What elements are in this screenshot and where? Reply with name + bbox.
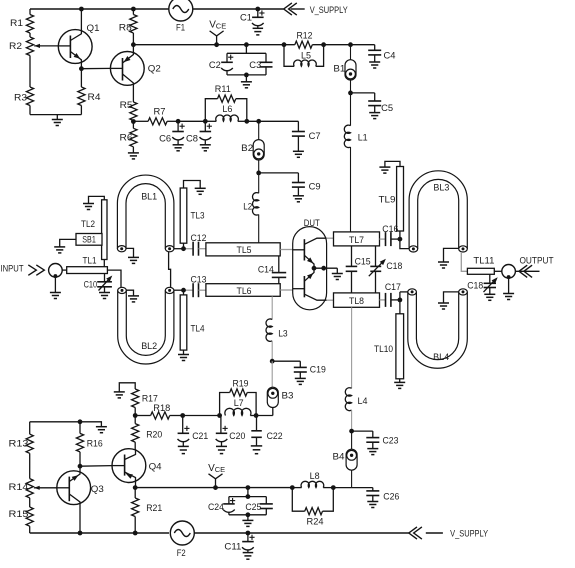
svg-text:TL9: TL9 bbox=[379, 194, 396, 205]
svg-text:C11: C11 bbox=[224, 542, 241, 553]
svg-text:TL5: TL5 bbox=[237, 245, 252, 256]
capacitor C24 bbox=[208, 488, 266, 515]
capacitor C2 bbox=[209, 45, 266, 75]
svg-text:OUTPUT: OUTPUT bbox=[520, 256, 554, 267]
svg-text:R13: R13 bbox=[9, 438, 29, 449]
transmission line TL4 bbox=[180, 290, 204, 350]
capacitor C5 bbox=[351, 93, 394, 119]
svg-text:R4: R4 bbox=[88, 92, 101, 103]
svg-text:CE: CE bbox=[216, 22, 226, 31]
wire lower VCE rail bbox=[135, 487, 292, 489]
svg-text:TL10: TL10 bbox=[374, 344, 393, 355]
capacitor C12 bbox=[191, 233, 207, 256]
capacitor C1 bbox=[240, 9, 265, 35]
svg-text:V_SUPPLY: V_SUPPLY bbox=[310, 5, 349, 16]
svg-text:C13: C13 bbox=[191, 274, 207, 285]
wire bias ground rail bbox=[30, 114, 81, 116]
inductor L8 bbox=[290, 471, 352, 490]
input connector J1 bbox=[49, 264, 63, 279]
node C6 bbox=[176, 119, 181, 124]
svg-text:Q3: Q3 bbox=[91, 484, 104, 495]
inductor L5 bbox=[284, 45, 324, 67]
resistor R4 bbox=[78, 69, 101, 115]
node L3/C19 bbox=[270, 341, 275, 364]
ground TL10 bottom bbox=[394, 379, 405, 389]
svg-text:C3: C3 bbox=[249, 60, 261, 71]
wire bias top rail bottom-left bbox=[30, 421, 80, 423]
ground BL4 right end bbox=[438, 292, 459, 309]
capacitor C3 bbox=[249, 53, 272, 75]
svg-text:C18: C18 bbox=[386, 261, 402, 272]
capacitor C8 bbox=[186, 121, 212, 151]
svg-text:C16: C16 bbox=[382, 224, 398, 235]
svg-text:C21: C21 bbox=[192, 431, 208, 442]
node C2/C3 bbox=[244, 42, 249, 47]
ground C24/C25 bbox=[229, 512, 266, 526]
node B1 top bbox=[348, 42, 353, 47]
variable capacitor C18 center bbox=[369, 246, 403, 293]
capacitor C14 bbox=[258, 256, 286, 284]
svg-text:C10: C10 bbox=[84, 280, 98, 291]
node C17 bbox=[398, 292, 408, 314]
resistor R11 bbox=[205, 84, 247, 121]
svg-text:TL1: TL1 bbox=[83, 256, 97, 267]
capacitor C19 bbox=[272, 361, 326, 384]
transistor Q4 bbox=[112, 449, 162, 488]
source F2 bbox=[170, 521, 194, 559]
capacitor C13 bbox=[191, 274, 207, 297]
wire bottom rail bbox=[30, 531, 409, 536]
svg-text:R15: R15 bbox=[9, 509, 29, 520]
capacitor C21 bbox=[178, 416, 209, 454]
VCE arrow bottom bbox=[208, 463, 225, 490]
offpage OUTPUT bbox=[515, 256, 553, 278]
potentiometer R14 bbox=[9, 479, 57, 498]
node R16/Q3/Q4 base bbox=[78, 464, 112, 469]
svg-text:BL1: BL1 bbox=[141, 191, 157, 202]
DUT upper transistor bbox=[293, 238, 327, 268]
svg-text:BL4: BL4 bbox=[433, 352, 449, 363]
output connector J2 bbox=[502, 265, 516, 280]
svg-text:C19: C19 bbox=[310, 365, 326, 376]
svg-text:R12: R12 bbox=[297, 30, 313, 41]
svg-text:R16: R16 bbox=[87, 439, 103, 450]
ground TL4 bottom bbox=[178, 350, 189, 360]
svg-text:C22: C22 bbox=[267, 431, 283, 442]
ground BL1 left end bbox=[126, 248, 139, 263]
wire VCE rail bbox=[133, 44, 294, 46]
node below B1 bbox=[348, 80, 353, 95]
wire BL3 to TL11 bbox=[461, 252, 467, 271]
svg-text:R19: R19 bbox=[233, 378, 249, 389]
svg-text:B2: B2 bbox=[241, 143, 253, 154]
offpage input chevrons bbox=[28, 265, 44, 275]
ground SB1 bbox=[54, 239, 76, 253]
svg-text:DUT: DUT bbox=[304, 218, 320, 229]
resistor R21 bbox=[132, 488, 163, 533]
resistor R15 bbox=[9, 498, 34, 533]
svg-text:BL2: BL2 bbox=[141, 341, 157, 352]
svg-text:B1: B1 bbox=[333, 64, 345, 75]
resistor R7 bbox=[133, 107, 178, 125]
svg-text:R14: R14 bbox=[9, 482, 29, 493]
transistor Q1 bbox=[58, 9, 99, 69]
svg-text:R5: R5 bbox=[120, 100, 133, 111]
svg-text:TL4: TL4 bbox=[191, 324, 205, 335]
svg-text:L2: L2 bbox=[243, 202, 252, 213]
svg-text:C2: C2 bbox=[209, 60, 221, 71]
svg-text:Q2: Q2 bbox=[148, 64, 161, 75]
wire B3 to feed line bbox=[272, 408, 274, 416]
node DUT emitters bbox=[312, 266, 338, 271]
node L4/C23 bbox=[349, 410, 354, 433]
node C8 bbox=[203, 119, 208, 124]
svg-text:R24: R24 bbox=[307, 517, 324, 528]
capacitor C11 bbox=[224, 533, 254, 559]
node BL1 right / TL3 bbox=[174, 246, 193, 251]
wire DUT to TL7 bbox=[327, 237, 334, 239]
node Q3 collector rail bbox=[78, 531, 83, 536]
svg-text:Q4: Q4 bbox=[149, 461, 162, 472]
svg-text:R1: R1 bbox=[10, 18, 23, 29]
svg-text:R20: R20 bbox=[146, 430, 162, 441]
ground DUT bbox=[332, 268, 343, 279]
node R8/Q2/VCE rail bbox=[131, 42, 136, 47]
node L7/R19 right bbox=[254, 413, 273, 418]
wire C6-C8 bbox=[178, 120, 205, 122]
wire TL5 to DUT bbox=[280, 249, 293, 251]
stub SB1 bbox=[76, 234, 102, 246]
wire BL1-BL2 link bbox=[169, 252, 171, 287]
svg-text:C9: C9 bbox=[309, 182, 321, 193]
wire TL6 to L3 bbox=[271, 296, 273, 319]
svg-text:R3: R3 bbox=[14, 92, 27, 103]
ferrite bead B2 bbox=[241, 121, 264, 160]
svg-text:TL11: TL11 bbox=[473, 256, 494, 267]
potentiometer R2 bbox=[9, 37, 58, 56]
svg-text:BL3: BL3 bbox=[433, 182, 449, 193]
transmission line TL7 bbox=[334, 232, 380, 246]
transistor Q2 bbox=[110, 45, 160, 102]
svg-text:SB1: SB1 bbox=[82, 235, 96, 246]
resistor R1 bbox=[10, 9, 34, 37]
ferrite bead B3 bbox=[267, 361, 293, 407]
ferrite bead B1 bbox=[333, 45, 356, 80]
DUT package outline bbox=[293, 218, 327, 310]
resistor R20 bbox=[132, 416, 163, 450]
ground under R6 bbox=[128, 153, 139, 159]
svg-text:C4: C4 bbox=[384, 51, 396, 62]
ground input connector bbox=[50, 277, 61, 298]
svg-text:L6: L6 bbox=[222, 104, 232, 115]
resistor R13 bbox=[9, 422, 34, 479]
wire TL7 to C16 bbox=[380, 238, 386, 240]
transmission line TL11 bbox=[467, 256, 494, 275]
svg-text:R8: R8 bbox=[119, 22, 132, 33]
inductor L2 bbox=[243, 173, 258, 243]
wire C21-C20 bbox=[183, 415, 220, 417]
svg-text:C20: C20 bbox=[229, 431, 245, 442]
capacitor C16 bbox=[382, 224, 400, 246]
node R11/L6 right bbox=[244, 119, 298, 124]
svg-text:C26: C26 bbox=[383, 492, 399, 503]
wire TL8 to L4 bbox=[351, 307, 353, 388]
svg-text:R18: R18 bbox=[153, 403, 170, 414]
transmission line TL6 bbox=[206, 284, 280, 297]
svg-text:C25: C25 bbox=[245, 502, 261, 513]
node R5/R6/R7 bbox=[131, 119, 136, 124]
inductor L3 bbox=[266, 319, 288, 341]
wire L1 to TL7 bbox=[350, 147, 352, 232]
wire TL11 to output bbox=[494, 270, 502, 272]
inductor L6 bbox=[205, 104, 247, 121]
inductor L1 bbox=[344, 93, 367, 148]
node C24/C25 bbox=[246, 485, 251, 490]
capacitor C22 bbox=[251, 416, 283, 454]
svg-text:R21: R21 bbox=[146, 503, 162, 514]
resistor R16 bbox=[76, 422, 102, 466]
ground under R3/R4 bbox=[52, 115, 63, 126]
transmission line TL2 bbox=[81, 200, 107, 267]
resistor R12 bbox=[282, 30, 351, 48]
offpage V_SUPPLY top bbox=[284, 3, 349, 16]
svg-text:F2: F2 bbox=[177, 548, 186, 559]
svg-text:C6: C6 bbox=[159, 133, 171, 144]
capacitor C4 bbox=[351, 45, 396, 68]
transmission line TL5 bbox=[206, 243, 280, 256]
wire DUT to TL8 bbox=[327, 299, 334, 301]
ground BL2 left end bbox=[126, 290, 139, 302]
inductor L4 bbox=[345, 388, 367, 411]
balun BL1 bbox=[117, 175, 174, 252]
wire B4 to rail bbox=[351, 470, 353, 487]
balun BL3 bbox=[409, 171, 467, 252]
svg-text:C14: C14 bbox=[258, 265, 274, 276]
svg-text:L7: L7 bbox=[234, 398, 244, 409]
capacitor C7 bbox=[292, 121, 321, 157]
wire TL6 to DUT bbox=[280, 289, 293, 291]
ferrite bead B4 bbox=[333, 431, 358, 470]
svg-text:TL6: TL6 bbox=[237, 286, 252, 297]
ground R17 top bbox=[114, 383, 135, 398]
svg-text:Q1: Q1 bbox=[87, 23, 100, 34]
capacitor C15 bbox=[346, 246, 371, 293]
svg-text:R11: R11 bbox=[215, 84, 231, 95]
VCE arrow top bbox=[209, 20, 226, 48]
svg-text:C15: C15 bbox=[355, 256, 371, 267]
svg-text:TL2: TL2 bbox=[81, 219, 95, 230]
balun BL2 bbox=[118, 287, 174, 364]
label INPUT bbox=[1, 264, 24, 275]
capacitor C20 bbox=[216, 416, 246, 454]
ground output connector bbox=[503, 278, 514, 300]
transistor Q3 bbox=[57, 466, 104, 533]
svg-text:R6: R6 bbox=[120, 132, 133, 143]
node Q4 emitter bbox=[133, 485, 138, 490]
svg-text:R2: R2 bbox=[9, 41, 22, 52]
svg-text:C12: C12 bbox=[191, 233, 207, 244]
ground TL3 top bbox=[184, 181, 206, 195]
capacitor C25 bbox=[245, 497, 272, 515]
svg-text:C17: C17 bbox=[385, 282, 401, 293]
capacitor C23 bbox=[352, 431, 399, 455]
svg-text:C5: C5 bbox=[381, 103, 393, 114]
variable capacitor C18 output bbox=[467, 274, 498, 300]
svg-text:L5: L5 bbox=[301, 50, 311, 61]
svg-text:TL7: TL7 bbox=[349, 235, 364, 246]
node R17/R18/R20 bbox=[133, 413, 138, 418]
capacitor C9 bbox=[259, 173, 321, 202]
svg-text:V_SUPPLY: V_SUPPLY bbox=[450, 529, 489, 540]
balun BL4 bbox=[408, 289, 468, 368]
capacitor C6 bbox=[159, 121, 185, 151]
transmission line TL1 bbox=[62, 256, 107, 274]
svg-text:L1: L1 bbox=[358, 133, 368, 144]
node C16 bbox=[398, 231, 410, 249]
resistor R19 bbox=[220, 378, 257, 415]
svg-text:L8: L8 bbox=[310, 471, 320, 482]
offpage V_SUPPLY bottom bbox=[409, 527, 489, 540]
transmission line TL9 bbox=[379, 167, 404, 232]
resistor R18 bbox=[135, 403, 183, 419]
resistor R17 bbox=[132, 389, 158, 416]
ground BL3 right end bbox=[438, 248, 459, 268]
node B2 bbox=[256, 119, 261, 124]
resistor R24 bbox=[292, 488, 333, 528]
variable capacitor C10 bbox=[84, 274, 113, 299]
ground TL2 top bbox=[83, 196, 104, 209]
node C20 bbox=[217, 413, 222, 418]
svg-text:C7: C7 bbox=[309, 131, 321, 142]
svg-text:L3: L3 bbox=[278, 328, 288, 339]
DUT lower transistor bbox=[293, 268, 327, 300]
svg-text:L4: L4 bbox=[358, 396, 368, 407]
svg-text:TL8: TL8 bbox=[349, 296, 364, 307]
node BL2 right / TL4 bbox=[174, 288, 193, 293]
capacitor C17 bbox=[385, 282, 401, 307]
wire TL1 to BL2 bbox=[107, 270, 121, 287]
resistor R3 bbox=[14, 56, 34, 115]
svg-text:CE: CE bbox=[215, 465, 225, 474]
inductor L7 bbox=[225, 398, 256, 415]
resistor R6 bbox=[120, 122, 138, 153]
svg-text:B4: B4 bbox=[333, 452, 345, 463]
node C21 bbox=[180, 413, 185, 418]
resistor R8 bbox=[119, 9, 137, 45]
transmission line TL3 bbox=[180, 188, 204, 249]
wire TL8 to C17 bbox=[380, 299, 386, 301]
transmission line TL10 bbox=[374, 314, 404, 379]
node below B2 bbox=[256, 160, 261, 175]
svg-text:C18: C18 bbox=[467, 281, 483, 292]
svg-text:INPUT: INPUT bbox=[1, 264, 24, 275]
svg-text:C1: C1 bbox=[240, 12, 252, 23]
svg-text:C23: C23 bbox=[383, 436, 399, 447]
transmission line TL8 bbox=[334, 293, 380, 307]
svg-text:C8: C8 bbox=[186, 133, 198, 144]
capacitor C26 bbox=[352, 488, 400, 508]
ground R16 rail bbox=[78, 419, 107, 432]
resistor R5 bbox=[120, 100, 137, 121]
svg-text:R7: R7 bbox=[154, 107, 166, 118]
source F1 bbox=[169, 0, 193, 34]
svg-text:C24: C24 bbox=[208, 502, 224, 513]
ground TL9 top bbox=[379, 161, 400, 173]
svg-text:F1: F1 bbox=[176, 23, 185, 34]
wire top supply rail bbox=[30, 7, 283, 12]
node Q1 emitter bbox=[79, 66, 111, 71]
svg-text:TL3: TL3 bbox=[191, 211, 205, 222]
svg-text:B3: B3 bbox=[282, 391, 294, 402]
ground C2/C3 bbox=[227, 73, 266, 88]
